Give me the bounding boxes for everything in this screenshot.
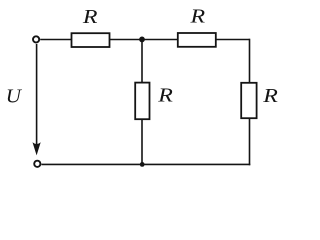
terminal (bottom-left input)	[34, 161, 40, 167]
wire (middle resistor down to node B)	[141, 119, 143, 164]
svg-text:R: R	[262, 85, 278, 107]
wire (R1 to node A)	[110, 39, 143, 41]
node A (top junction dot)	[139, 37, 145, 43]
resistor R (right vertical)	[241, 83, 256, 118]
terminal (top-left input)	[33, 36, 39, 42]
wire (voltage arrow shaft)	[36, 44, 38, 148]
node B (bottom junction dot)	[140, 162, 145, 167]
svg-text:R: R	[157, 84, 173, 106]
resistor R (top-right)	[178, 33, 216, 47]
arrowhead (voltage arrow U, pointing down)	[33, 142, 41, 155]
resistor R (top-left)	[72, 33, 110, 47]
wire (R2 to top-right corner)	[216, 39, 250, 41]
wire (right resistor to bottom-right corner)	[249, 118, 251, 165]
wire (bottom rail)	[41, 163, 250, 165]
svg-text:U: U	[6, 85, 23, 107]
svg-text:R: R	[189, 5, 205, 27]
svg-text:R: R	[82, 6, 98, 28]
resistor R (middle vertical)	[135, 83, 149, 120]
wire (top-right corner down to right resistor)	[249, 39, 251, 83]
wire (top-left terminal to R1)	[40, 39, 71, 41]
wire (node A down to middle resistor)	[141, 40, 143, 83]
wire (node A to R2)	[142, 39, 178, 41]
